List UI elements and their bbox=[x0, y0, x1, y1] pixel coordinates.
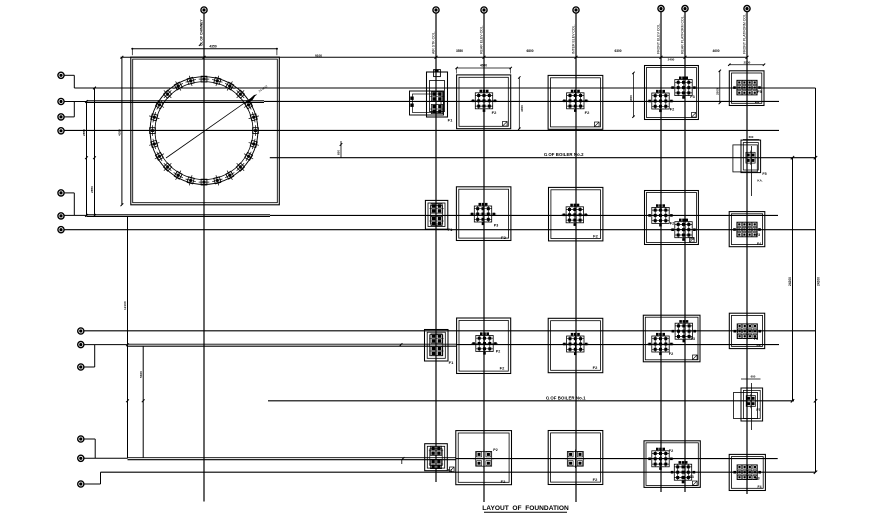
right dimension line x=792.5 between boiler CLs bbox=[792, 158, 794, 401]
anchor bolt 18 bbox=[184, 174, 197, 187]
svg-text:F3: F3 bbox=[690, 95, 694, 99]
footing F2 row3 col484 bolt cluster bbox=[476, 336, 493, 352]
svg-text:F5: F5 bbox=[756, 408, 760, 412]
tick right vertical at row4 outer corner bbox=[814, 471, 817, 474]
chimney foundation outer square bbox=[131, 57, 279, 205]
footing F5 boiler2 side box bbox=[733, 145, 757, 172]
dim tick on row4 line at x=403 bbox=[402, 457, 405, 460]
anchor bolt 6 bbox=[211, 74, 224, 87]
grid bubble 2 top bbox=[433, 7, 439, 13]
row line main row 1 double lower bbox=[87, 101, 265, 103]
footing F1 row2 outer bbox=[425, 200, 447, 229]
footing F1 row1 outer rect bbox=[427, 72, 448, 117]
chimney top dimension line y=48.7 bbox=[132, 48, 277, 50]
footing F4 row3 bolt cluster bbox=[737, 324, 757, 339]
svg-text:4350: 4350 bbox=[209, 44, 217, 48]
footing F1 row4 mid rect bbox=[427, 446, 444, 468]
footing F1 row2 bolt cluster upper bbox=[431, 204, 442, 213]
svg-text:INTER ELEV COL.: INTER ELEV COL. bbox=[571, 24, 575, 54]
footing pad F2F3-r1 inner bbox=[647, 68, 697, 118]
footing F1 row3 outer bbox=[425, 330, 449, 362]
dim tick on top line at x=436 bbox=[435, 56, 438, 59]
row line y=229.7 (outer row 2) bbox=[64, 229, 816, 231]
svg-text:3550: 3550 bbox=[456, 49, 463, 53]
svg-text:F4: F4 bbox=[757, 242, 761, 246]
footing wide row1 bolt cluster F2 bbox=[652, 93, 669, 109]
footing F2 row1 col484 corner mark bbox=[503, 122, 508, 127]
footing pad F2F3-r4 outer bbox=[644, 441, 700, 488]
grid column line 3 (x=484) bbox=[483, 13, 485, 502]
footing F1 row1 bolt cluster lower bbox=[431, 104, 442, 113]
grid column line 5 (x=661) bbox=[660, 12, 662, 492]
footing F1 row3 bolt cluster lower bbox=[431, 346, 442, 355]
footing F4 row1 left dim line bbox=[719, 71, 721, 103]
grid bubble E left bbox=[58, 190, 64, 196]
svg-text:F2: F2 bbox=[593, 365, 598, 370]
footing F1 row1 side bolts bbox=[410, 97, 413, 100]
footing wide row3 bolt cluster F2 bbox=[652, 336, 669, 352]
anchor bolt 7 bbox=[199, 74, 210, 85]
svg-text:F2: F2 bbox=[670, 108, 674, 112]
svg-text:5600: 5600 bbox=[139, 371, 143, 378]
svg-text:12100: 12100 bbox=[123, 301, 127, 310]
footing wide row2 bolt cluster F2 bbox=[652, 207, 669, 223]
footing pad F4-r4 outer bbox=[729, 454, 765, 490]
grid bubble J left bbox=[78, 342, 84, 348]
footing F2 row1 col576 corner mark bbox=[595, 122, 600, 127]
row line main row 1 double upper bbox=[87, 100, 265, 102]
footing wide row3 bolt cluster F3 bbox=[675, 323, 692, 339]
footing F1 row4 bolt cluster upper bbox=[430, 446, 441, 455]
footing F3 row2 bolt cluster bbox=[737, 222, 757, 237]
row line y=472.2 (outer row 4) bbox=[101, 471, 816, 473]
row line main row 2 double upper bbox=[87, 214, 271, 216]
footing pad F2-r2c576 inner bbox=[551, 190, 601, 239]
grid bubble N left bbox=[78, 481, 84, 487]
svg-text:F3: F3 bbox=[754, 337, 758, 341]
dim tick on top line at x=576 bbox=[575, 56, 578, 59]
svg-text:OF BOILER No.2: OF BOILER No.2 bbox=[548, 152, 584, 157]
footing wide row1 left dim line bbox=[633, 73, 635, 117]
svg-text:24200: 24200 bbox=[788, 277, 792, 286]
footing F5 boiler1 bolt cluster bbox=[746, 396, 755, 407]
footing F1 row4 bolt cluster lower bbox=[430, 459, 441, 468]
footing pad F2-r3c484 inner bbox=[459, 320, 508, 371]
boiler No.1 centreline y=400.8 bbox=[268, 400, 794, 402]
row line y=458.4 main row 4 thin lead bbox=[84, 457, 128, 459]
footing F5 boiler1 side box bbox=[734, 393, 758, 419]
row line y=88 (outer row 1) bbox=[74, 87, 815, 89]
boiler No.2 centreline y=157.7 bbox=[270, 157, 816, 159]
footing F5 boiler2 CL outer bbox=[741, 140, 761, 173]
grid bubble H left bbox=[78, 328, 84, 334]
anchor bolt 12 bbox=[148, 111, 161, 124]
dim tick on row3 line at x=401 bbox=[400, 343, 403, 346]
grid bubble 1 top (chimney) bbox=[201, 7, 207, 13]
row line main row 4 double lower bbox=[128, 459, 456, 461]
svg-text:F2: F2 bbox=[593, 477, 598, 482]
footing pad F2-r2c576 outer bbox=[549, 187, 603, 241]
footing F5 boiler1 CL outer bbox=[741, 388, 763, 421]
grid column line 4 (x=576) bbox=[575, 13, 577, 502]
footing pad F2F3-r4 inner bbox=[646, 443, 698, 486]
footing pad F4-r3 outer bbox=[729, 313, 764, 348]
left dim line x=94.5 bbox=[94, 88, 96, 215]
footing F5 boiler2 bolt cluster bbox=[746, 152, 755, 163]
footing pad F4-r3 inner bbox=[732, 315, 763, 346]
grid bubble 3 top bbox=[481, 7, 487, 13]
footing F4 row1 top dim line bbox=[729, 64, 764, 66]
footing pad F2F3-r1 outer bbox=[645, 66, 699, 120]
bolt circle diameter leader line bbox=[166, 95, 257, 159]
left dim line x=143.2 rows 3-4 bbox=[142, 346, 144, 458]
footing wide row2 bolt cluster F3 bbox=[675, 222, 692, 238]
footing F1 row1 inner rect bbox=[430, 81, 445, 112]
footing wide row4 corner mark bbox=[693, 481, 698, 486]
svg-text:2850: 2850 bbox=[82, 129, 86, 136]
grid bubble M left bbox=[78, 455, 84, 461]
right vertical from row line y=88 down to y=472 bbox=[815, 88, 817, 472]
grid bubble K left bbox=[78, 364, 84, 370]
footing F1 row1 column stub box bbox=[434, 70, 441, 77]
leader elbow bubble K bbox=[84, 366, 95, 368]
row line y=215.4 main row 2 thin lead bbox=[64, 214, 87, 216]
anchor bolt 14 bbox=[148, 137, 161, 150]
footing pad F2F3-r2 outer bbox=[645, 191, 699, 245]
footing F1 row1 bolt cluster upper bbox=[431, 92, 442, 101]
grid column line 1 (chimney CL x=204) bbox=[203, 13, 205, 502]
svg-text:CL OF CHIMNEY: CL OF CHIMNEY bbox=[200, 19, 204, 46]
dim tick on top line at x=685 bbox=[684, 56, 687, 59]
leader elbow bubble C bbox=[64, 116, 74, 118]
svg-text:F1: F1 bbox=[448, 227, 453, 232]
footing pad F2-r2c484 outer bbox=[456, 187, 511, 241]
footing pad F2-r1c576 inner bbox=[551, 78, 601, 127]
footing wide row4 bolt cluster F2 bbox=[652, 451, 669, 467]
footing F1 row4 inner rect bbox=[430, 449, 442, 466]
footing F4 row1 bolt cluster bbox=[737, 80, 757, 95]
footing pad F2F3-r2 inner bbox=[647, 193, 697, 243]
svg-text:FRONT PLATFORM COL.: FRONT PLATFORM COL. bbox=[742, 13, 746, 54]
footing F2 row1 col484 top dim line bbox=[457, 67, 511, 69]
anchor bolt circle outer bbox=[150, 77, 258, 185]
svg-text:6300: 6300 bbox=[614, 49, 621, 53]
svg-text:AIR STK COL.: AIR STK COL. bbox=[431, 31, 435, 54]
footing pad F2-r4c576 outer bbox=[548, 431, 603, 485]
svg-text:OF BOILER No.1: OF BOILER No.1 bbox=[550, 395, 586, 400]
grid bubble 6 top bbox=[682, 6, 688, 12]
svg-text:P2: P2 bbox=[493, 448, 497, 452]
grid bubble F left bbox=[58, 213, 64, 219]
footing wide row2 corner mark bbox=[690, 238, 695, 243]
dim tick on top line at x=484 bbox=[483, 56, 486, 59]
grid bubble A left bbox=[58, 72, 64, 78]
tick right vertical at boiler2 CL bbox=[814, 156, 817, 159]
svg-text:F2: F2 bbox=[669, 449, 673, 453]
footing pad F2-r3c576 outer bbox=[548, 318, 603, 372]
tick right vertical at boiler1 CL bbox=[814, 399, 817, 402]
row line y=101.5 main row 1 thin lead bbox=[64, 101, 87, 103]
footing pad F2-r4c576 inner bbox=[551, 433, 601, 482]
grid bubble D left bbox=[58, 128, 64, 134]
footing F2 row1 col484 bolt cluster bbox=[475, 93, 492, 109]
grid bubble G left bbox=[58, 227, 64, 233]
footing F1 row3 mid rect bbox=[427, 332, 445, 358]
svg-text:650: 650 bbox=[337, 150, 341, 155]
svg-text:9100: 9100 bbox=[315, 54, 322, 58]
row line main row 3 double lower bbox=[128, 345, 457, 347]
svg-text:F2: F2 bbox=[585, 110, 590, 115]
grid bubble 7 top bbox=[744, 6, 750, 12]
svg-text:2850: 2850 bbox=[90, 186, 94, 193]
row line main row 3 continuation bbox=[457, 344, 779, 346]
svg-text:F4: F4 bbox=[757, 344, 761, 348]
chimney block left dimension line x=121.9 bbox=[121, 57, 123, 205]
anchor bolt 4 bbox=[233, 87, 248, 102]
row line main row 3 double upper bbox=[128, 343, 457, 345]
footing F5 boiler2 CL inner bbox=[743, 143, 758, 171]
footing F5 boiler2 top dim bbox=[743, 139, 759, 141]
footing F1 row1 top dim mark bbox=[435, 70, 439, 72]
footing wide row1 bolt cluster F3 bbox=[675, 80, 692, 96]
dim tick on top line at x=661 bbox=[660, 56, 663, 59]
grid bubble L left bbox=[78, 436, 84, 442]
svg-text:F1: F1 bbox=[448, 118, 453, 123]
anchor bolt 1 bbox=[250, 125, 261, 136]
footing wide row4 bolt cluster F3 bbox=[674, 464, 691, 480]
footing F1 row2 bolt cluster lower bbox=[431, 216, 442, 225]
chimney foundation inner square bbox=[133, 59, 278, 203]
footing F2 row3 col576 bolt cluster bbox=[567, 336, 584, 352]
leader elbow bubble N bbox=[84, 483, 101, 485]
svg-text:F2: F2 bbox=[501, 235, 506, 240]
anchor bolt 5 bbox=[223, 79, 237, 93]
svg-text:6800: 6800 bbox=[526, 49, 533, 53]
svg-text:F3: F3 bbox=[755, 477, 759, 481]
row line y=330.8 (outer row 3) bbox=[84, 330, 816, 332]
anchor bolt 9 bbox=[171, 79, 185, 93]
footing F4 row4 bolt cluster bbox=[737, 465, 757, 480]
grid column line 2 (x=436) bbox=[435, 13, 437, 482]
svg-text:600: 600 bbox=[749, 135, 754, 139]
anchor bolt circle inner bbox=[155, 82, 253, 180]
footing pad F2-r1c484 inner bbox=[459, 77, 508, 126]
footing pad F2-r1c576 outer bbox=[548, 75, 603, 129]
anchor bolt 17 bbox=[171, 168, 185, 182]
svg-text:KA.: KA. bbox=[757, 179, 762, 183]
svg-text:2400: 2400 bbox=[668, 58, 675, 62]
footing pad F3-r2 outer bbox=[729, 212, 765, 247]
grid bubble C left bbox=[58, 114, 64, 120]
left dim line x=86.5 bbox=[86, 102, 88, 216]
footing pad F3-r2 inner bbox=[731, 214, 762, 245]
svg-text:F2: F2 bbox=[492, 110, 497, 115]
footing wide row1 corner mark bbox=[692, 113, 697, 118]
svg-text:4000: 4000 bbox=[629, 95, 633, 102]
leader elbow bubble A bbox=[64, 74, 74, 76]
footing F2 row2 col484 bolt cluster bbox=[474, 206, 491, 222]
anchor bolt 19 bbox=[199, 177, 210, 188]
footing pad F2-r3c576 inner bbox=[551, 321, 601, 371]
footing pad F4-r1 inner bbox=[732, 73, 762, 103]
svg-text:4350: 4350 bbox=[118, 129, 122, 136]
row line main row 4 double upper bbox=[128, 457, 456, 459]
left dim line x=127.5 rows 2-4 bbox=[127, 216, 129, 459]
dim stub x=341 above boiler2 CL bbox=[340, 141, 342, 158]
svg-text:F3: F3 bbox=[691, 337, 695, 341]
footing pad F2-r4c484 inner bbox=[458, 433, 509, 482]
footing F2 row4 col484 bolt cluster bbox=[476, 451, 492, 466]
dim tick on top line at x=204 bbox=[203, 56, 206, 59]
svg-text:F1: F1 bbox=[449, 360, 454, 365]
footing F1 row4 outer bbox=[425, 444, 448, 471]
footing pad F2F3-r3 inner bbox=[645, 317, 698, 360]
footing F2 row1 col576 bolt cluster bbox=[567, 93, 584, 109]
footing pad F2-r2c484 inner bbox=[459, 189, 509, 238]
footing F5 boiler1 CL inner bbox=[743, 390, 760, 418]
svg-text:F5: F5 bbox=[757, 90, 761, 94]
svg-text:F2: F2 bbox=[669, 352, 673, 356]
row line y=130.4 (chimney centre row) bbox=[64, 129, 779, 131]
svg-text:REAR PLATFORM COL.: REAR PLATFORM COL. bbox=[680, 15, 684, 54]
anchor bolt 21 bbox=[223, 168, 237, 182]
anchor bolt 15 bbox=[152, 149, 166, 163]
footing F2 row4 col576 bolt cluster bbox=[567, 451, 583, 466]
anchor bolt 3 bbox=[241, 98, 255, 112]
svg-text:P2: P2 bbox=[496, 350, 500, 354]
footing pad F2-r4c484 outer bbox=[456, 431, 512, 485]
row line main row 2 continuation bbox=[270, 214, 778, 216]
svg-text:REAR ELEV COL.: REAR ELEV COL. bbox=[479, 25, 483, 54]
svg-text:F5: F5 bbox=[762, 172, 766, 176]
anchor bolt 8 bbox=[184, 74, 197, 87]
anchor bolt 11 bbox=[152, 98, 166, 112]
footing pad F4-r1 outer bbox=[729, 71, 764, 106]
footing F1 row2 inner rect bbox=[431, 206, 443, 225]
diameter leader arrowhead bbox=[247, 95, 255, 102]
footing F2 row2 col576 bolt cluster bbox=[566, 207, 583, 223]
grid bubble 5 top bbox=[658, 6, 664, 12]
svg-text:F4: F4 bbox=[758, 485, 762, 489]
leader elbow bubble L bbox=[84, 438, 95, 440]
anchor bolt 20 bbox=[211, 174, 224, 187]
svg-text:2500: 2500 bbox=[744, 60, 751, 64]
dim tick on top line at x=747 bbox=[746, 56, 749, 59]
anchor bolt 13 bbox=[147, 125, 158, 136]
footing wide row3 corner mark bbox=[693, 355, 698, 360]
svg-text:F2: F2 bbox=[593, 234, 598, 239]
row line main row 1 continuation bbox=[264, 100, 779, 102]
footing F1 row3 inner rect bbox=[430, 335, 443, 356]
svg-text:FRONT ELEV COL.: FRONT ELEV COL. bbox=[656, 23, 660, 54]
title underline bbox=[484, 511, 567, 513]
grid bubble B left bbox=[58, 98, 64, 104]
grid column line 7 (x=747) bbox=[746, 12, 748, 494]
footing pad F2F3-r3 outer bbox=[643, 315, 700, 362]
footing pad F4-r4 inner bbox=[731, 457, 763, 489]
footing F1 row1 side box outer bbox=[410, 91, 444, 115]
anchor bolt 23 bbox=[241, 149, 255, 163]
svg-text:4600: 4600 bbox=[712, 49, 719, 53]
svg-text:F2: F2 bbox=[500, 366, 505, 371]
svg-text:600: 600 bbox=[751, 374, 756, 378]
svg-text:24200: 24200 bbox=[817, 277, 821, 286]
svg-text:F3: F3 bbox=[756, 233, 760, 237]
svg-text:4000: 4000 bbox=[480, 64, 487, 68]
svg-text:4000: 4000 bbox=[520, 105, 524, 112]
row line main row 4 continuation bbox=[456, 458, 778, 460]
svg-text:F2: F2 bbox=[670, 222, 674, 226]
small tick left of chimney column bbox=[199, 43, 202, 46]
row line main row 2 double lower bbox=[87, 215, 271, 217]
footing F1 row1 side box inner bbox=[413, 94, 442, 113]
vertical pair line right of col747 upper bbox=[751, 146, 753, 196]
top dimension line y=57.3 bbox=[121, 56, 748, 58]
footing F1 row4 corner mark bbox=[450, 467, 455, 472]
grid column line 6 (x=685) bbox=[684, 12, 686, 492]
svg-text:F3: F3 bbox=[689, 475, 693, 479]
svg-text:F2: F2 bbox=[501, 479, 506, 484]
footing F1 row3 bolt cluster upper bbox=[431, 334, 442, 343]
footing F5 boiler1 top dim bbox=[741, 378, 761, 380]
anchor bolt 22 bbox=[233, 160, 248, 175]
leader elbow bubble E bbox=[64, 192, 74, 194]
grid bubble 4 top bbox=[573, 7, 579, 13]
svg-text:P3: P3 bbox=[494, 224, 498, 228]
anchor bolt 10 bbox=[160, 87, 175, 102]
anchor bolt 2 bbox=[247, 111, 260, 124]
svg-text:2500: 2500 bbox=[716, 88, 720, 95]
footing F2 row1 col484 right dim line bbox=[518, 78, 520, 129]
vertical pair line right of col747 lower bbox=[751, 383, 753, 430]
footing pad F2-r1c484 outer bbox=[457, 75, 511, 129]
svg-text:LAYOUT OF FOUNDATION: LAYOUT OF FOUNDATION bbox=[482, 505, 569, 512]
anchor bolt 24 bbox=[247, 137, 260, 150]
footing pad F2-r3c484 outer bbox=[457, 318, 511, 374]
row line y=344.6 main row 3 thin lead bbox=[84, 344, 128, 346]
footing F1 row2 mid rect bbox=[428, 203, 445, 227]
anchor bolt 16 bbox=[160, 160, 175, 175]
